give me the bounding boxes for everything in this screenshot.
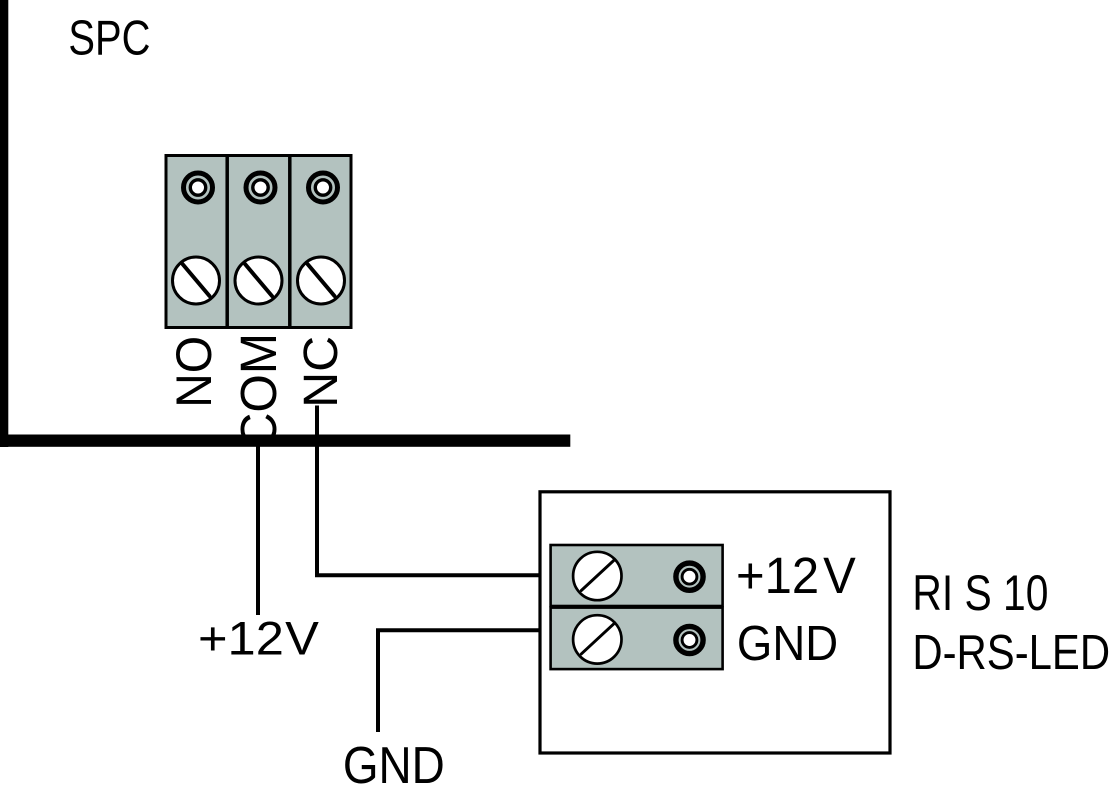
svg-text:NO: NO [166, 336, 222, 408]
svg-text:RI S 10: RI S 10 [912, 565, 1048, 621]
svg-text:+12 V: +12 V [198, 613, 319, 665]
svg-text:D-RS-LED: D-RS-LED [912, 624, 1110, 680]
svg-text:GND: GND [343, 737, 445, 794]
svg-text:SPC: SPC [68, 12, 150, 66]
svg-text:GND: GND [737, 617, 838, 672]
svg-text:NC: NC [294, 336, 348, 408]
svg-text:+12 V: +12 V [736, 547, 856, 604]
svg-text:COM: COM [231, 333, 288, 448]
